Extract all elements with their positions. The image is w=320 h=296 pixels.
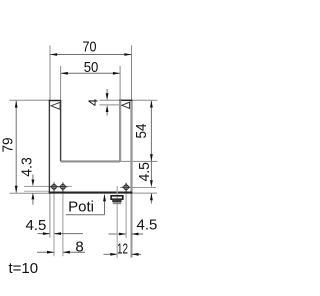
- hole H1 cross: [50, 186, 59, 188]
- dim 50 right arrow: [113, 72, 120, 75]
- dim 50 line: [61, 72, 120, 74]
- Poti leader vertical: [104, 200, 106, 215]
- part slot bottom edge: [61, 160, 121, 162]
- dim 4.3 lower arrow: [32, 193, 35, 200]
- hole H1: [52, 185, 57, 190]
- dim 4.5 right-vertical upper arrow tail: [150, 161, 152, 181]
- dim 4.3 upper arrow: [32, 180, 35, 187]
- potentiometer body flange: [111, 196, 123, 199]
- dim 79 bottom arrow: [15, 186, 18, 193]
- svg-text:8: 8: [75, 238, 83, 255]
- extension line right edge top (for dim 70): [131, 46, 133, 101]
- hole H2 cross: [59, 186, 68, 188]
- dim 8 line right tail: [63, 251, 85, 253]
- dim 4.3 upper arrow tail: [32, 175, 34, 181]
- hole H3: [124, 185, 129, 190]
- svg-text:50: 50: [84, 59, 99, 76]
- dim 4.5 right line right tail: [132, 233, 143, 235]
- dim 4.5 right line left tail: [109, 233, 126, 235]
- centerline through left holes: [24, 185, 72, 187]
- part right wall top edge: [119, 99, 132, 101]
- svg-text:4.3: 4.3: [18, 157, 35, 177]
- dim 4 upper arrow tail: [106, 89, 108, 94]
- extension line top edge rightwards (for dim 54): [132, 99, 158, 101]
- dim 70 right arrow: [124, 53, 131, 56]
- dim 4.5 left arrow pointing right: [43, 232, 50, 235]
- extension stub triangle level into slot (for dim 4): [100, 104, 121, 106]
- dim 4.5 left line left tail: [38, 233, 50, 235]
- potentiometer body middle band: [112, 199, 121, 202]
- dim 4.3 lower arrow tail: [32, 199, 34, 205]
- svg-text:4.5: 4.5: [137, 216, 158, 233]
- dim 54 bottom arrow: [150, 154, 153, 161]
- dim 12 arrow pointing left: [132, 253, 139, 256]
- dim 79 top arrow: [15, 101, 18, 108]
- extension line top edge leftwards (for dim 79): [10, 99, 50, 101]
- svg-text:79: 79: [0, 138, 16, 153]
- dim 8 arrow pointing left: [63, 251, 70, 254]
- centerline potentiometer vertical: [116, 186, 118, 258]
- dim 12 line left tail: [104, 253, 118, 255]
- extension line bottom edge leftwards (for dims 79 / 4.3): [10, 192, 50, 194]
- hole H2: [61, 185, 66, 190]
- centerline hole H1 vertical: [53, 183, 55, 257]
- part U-channel right outer edge: [130, 100, 132, 192]
- extension line right edge below part thick (for dims 4.5 / 12): [131, 193, 133, 258]
- dim 8 line left tail: [37, 251, 54, 253]
- dim 4.5 right-vertical upper arrow: [150, 180, 153, 187]
- Poti label underline: [66, 214, 105, 216]
- extension stub wall top into slot (for dim 4): [100, 99, 120, 101]
- svg-text:t=10: t=10: [9, 260, 39, 277]
- dim 70 left arrow: [50, 53, 57, 56]
- triangle marker right wall: [122, 102, 130, 108]
- dim 4 lower arrow tail: [106, 111, 108, 116]
- extension line slot bottom rightwards (for dim 54): [120, 160, 157, 162]
- dim 8 arrow pointing right: [47, 251, 54, 254]
- extension line slot left top (for dim 50): [60, 66, 62, 100]
- extension line slot right top (for dim 50): [119, 66, 121, 100]
- part slot left edge: [60, 101, 62, 162]
- dim 12 arrow pointing right: [110, 253, 117, 256]
- triangle marker left wall: [51, 102, 60, 109]
- svg-text:4.5: 4.5: [26, 217, 47, 234]
- hole H3 cross: [122, 186, 130, 188]
- extension line bottom edge rightwards (for dim 4.5 right vertical): [132, 192, 158, 194]
- centerline hole H2 vertical: [62, 183, 64, 257]
- part bottom edge: [49, 192, 133, 194]
- dim 4.5 left arrow pointing left: [54, 232, 61, 235]
- extension line left edge below part (for dim 4.5 left): [49, 193, 51, 238]
- dim 4.5 right-vertical lower arrow tail: [150, 193, 152, 203]
- svg-text:70: 70: [83, 38, 97, 55]
- dim 12 line right tail: [132, 253, 141, 255]
- extension line lower ref for dim 4.3: [24, 190, 49, 192]
- part slot right edge: [119, 100, 121, 161]
- centerline hole H3 vertical: [125, 183, 127, 239]
- dim 4.5 right arrow pointing right: [119, 233, 126, 236]
- dim 54 top arrow: [150, 101, 153, 108]
- svg-text:4: 4: [85, 99, 100, 106]
- dim 79 line: [15, 101, 17, 193]
- centerline hole H3 horizontal: [120, 187, 156, 189]
- potentiometer body lower band: [113, 202, 121, 204]
- dim 4.5 right-vertical lower arrow: [150, 193, 153, 200]
- dim 4 lower arrow: [106, 105, 109, 112]
- dim 4.5 left line right tail: [54, 233, 83, 235]
- svg-text:12: 12: [117, 241, 128, 258]
- part U-channel left outer edge: [48, 101, 50, 193]
- svg-text:54: 54: [133, 124, 150, 139]
- dim 4 upper arrow: [106, 93, 109, 100]
- dim 50 left arrow: [61, 72, 68, 75]
- part left wall top edge: [49, 100, 62, 102]
- svg-text:Poti: Poti: [68, 199, 94, 216]
- extension line left edge top (for dim 70): [49, 46, 51, 101]
- Poti leader arrow: [103, 194, 106, 202]
- dim 70 line: [50, 54, 131, 56]
- dim 54 line: [150, 101, 152, 161]
- svg-text:4.5: 4.5: [136, 162, 153, 182]
- dim 4.5 right arrow pointing left: [132, 233, 139, 236]
